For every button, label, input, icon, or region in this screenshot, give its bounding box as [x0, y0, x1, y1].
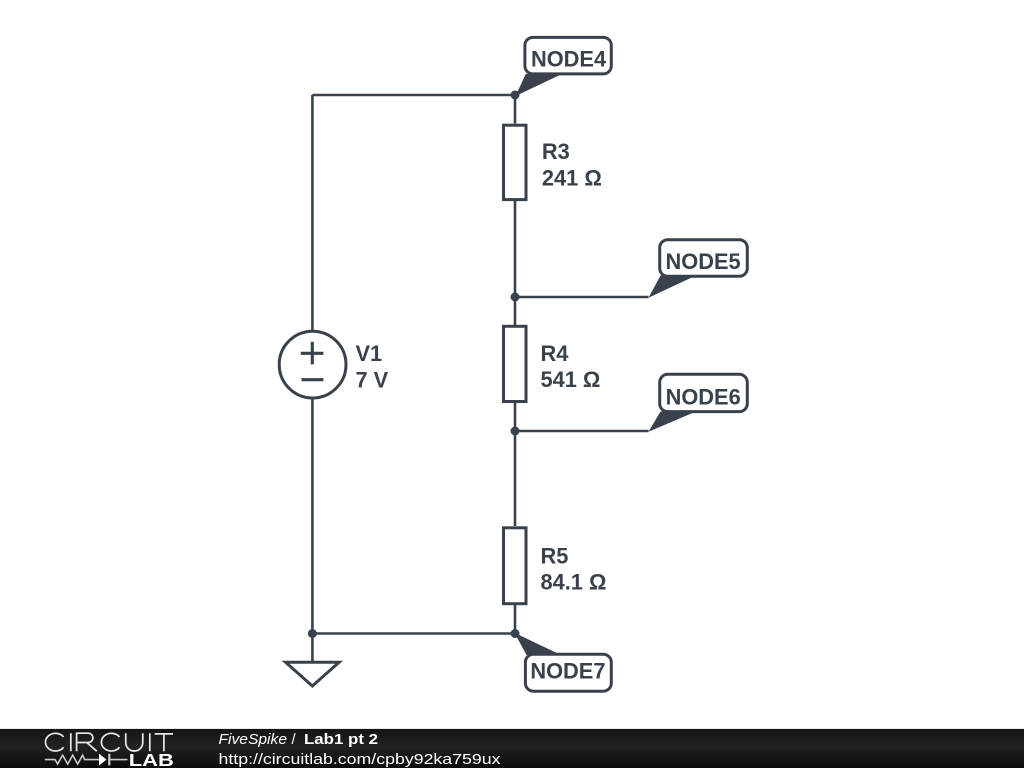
svg-text:Lab1 pt 2: Lab1 pt 2 — [304, 731, 378, 748]
svg-text:241 Ω: 241 Ω — [542, 166, 602, 191]
svg-text:NODE5: NODE5 — [666, 249, 741, 274]
svg-text:R4: R4 — [541, 341, 569, 366]
svg-text:84.1 Ω: 84.1 Ω — [541, 570, 607, 595]
svg-text:FiveSpike: FiveSpike — [219, 731, 288, 748]
svg-text:7 V: 7 V — [356, 368, 389, 393]
svg-text:http://circuitlab.com/cpby92ka: http://circuitlab.com/cpby92ka759ux — [219, 751, 502, 768]
svg-text:LAB: LAB — [129, 750, 174, 768]
svg-text:R5: R5 — [541, 544, 569, 569]
svg-text:541 Ω: 541 Ω — [541, 367, 601, 392]
svg-text:NODE7: NODE7 — [530, 659, 605, 684]
svg-text:NODE6: NODE6 — [666, 384, 741, 409]
svg-text:R3: R3 — [542, 139, 570, 164]
svg-text:NODE4: NODE4 — [531, 47, 606, 72]
svg-text:V1: V1 — [356, 341, 383, 366]
